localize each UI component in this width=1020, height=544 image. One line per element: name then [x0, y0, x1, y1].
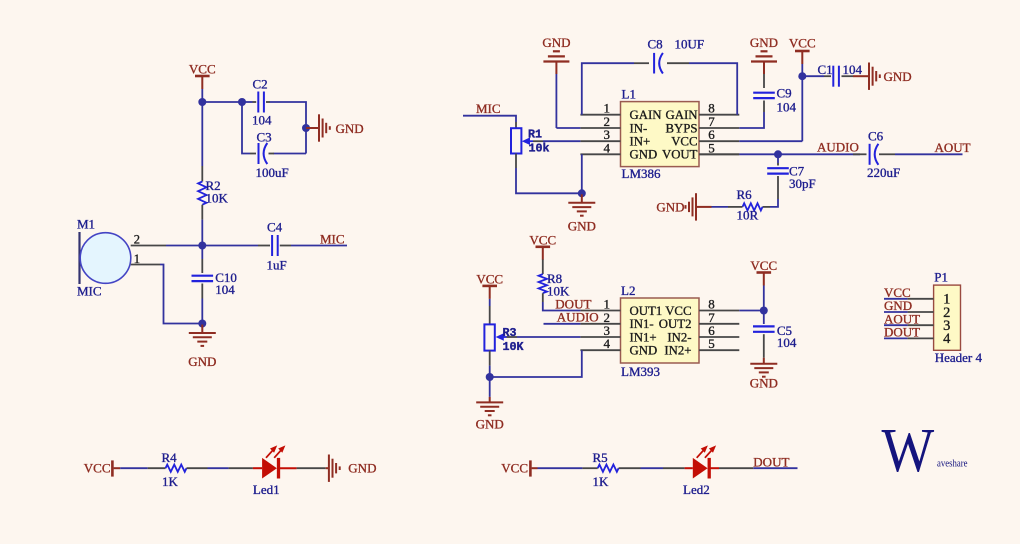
svg-text:VOUT: VOUT — [662, 148, 698, 162]
svg-text:GND: GND — [884, 69, 912, 84]
svg-text:104: 104 — [777, 335, 797, 350]
svg-text:4: 4 — [604, 336, 611, 351]
svg-text:R6: R6 — [737, 187, 753, 202]
svg-text:OUT2: OUT2 — [659, 317, 692, 331]
svg-text:104: 104 — [252, 113, 272, 128]
svg-text:GND: GND — [656, 200, 684, 215]
svg-text:10R: 10R — [737, 208, 759, 223]
svg-text:GND: GND — [630, 148, 658, 162]
svg-text:104: 104 — [843, 62, 863, 77]
svg-text:100uF: 100uF — [256, 165, 289, 180]
svg-text:LM393: LM393 — [621, 364, 660, 379]
svg-text:104: 104 — [215, 282, 235, 297]
svg-text:1K: 1K — [162, 474, 179, 489]
svg-text:L2: L2 — [621, 283, 635, 298]
svg-text:W: W — [882, 415, 935, 484]
svg-text:GND: GND — [348, 461, 376, 476]
svg-text:BYPS: BYPS — [665, 121, 697, 135]
svg-text:Header 4: Header 4 — [935, 350, 983, 365]
svg-text:C2: C2 — [253, 77, 268, 92]
svg-text:VCC: VCC — [671, 135, 697, 149]
svg-text:1uF: 1uF — [267, 258, 287, 273]
svg-text:MIC: MIC — [320, 231, 345, 246]
svg-text:M1: M1 — [77, 217, 95, 232]
svg-text:2: 2 — [134, 233, 140, 247]
svg-text:AOUT: AOUT — [935, 140, 971, 155]
svg-text:GND: GND — [750, 35, 778, 50]
svg-text:4: 4 — [943, 331, 951, 347]
svg-text:GND: GND — [542, 35, 570, 50]
svg-text:C8: C8 — [648, 36, 663, 51]
svg-text:AUDIO: AUDIO — [557, 310, 599, 325]
svg-text:VCC: VCC — [529, 233, 556, 248]
svg-text:Led1: Led1 — [253, 482, 280, 497]
svg-text:VCC: VCC — [476, 272, 503, 287]
svg-text:L1: L1 — [622, 87, 636, 102]
svg-text:GND: GND — [476, 417, 504, 432]
svg-text:220uF: 220uF — [867, 165, 900, 180]
svg-text:4: 4 — [604, 140, 611, 155]
svg-text:IN+: IN+ — [630, 135, 651, 149]
svg-text:GAIN: GAIN — [630, 108, 662, 122]
svg-text:R4: R4 — [162, 450, 178, 465]
svg-text:C4: C4 — [267, 220, 283, 235]
svg-text:C1: C1 — [818, 62, 833, 77]
svg-text:Led2: Led2 — [683, 482, 710, 497]
svg-text:5: 5 — [708, 336, 715, 351]
svg-text:VCC: VCC — [84, 461, 111, 476]
svg-text:10K: 10K — [206, 191, 229, 206]
svg-text:GAIN: GAIN — [666, 108, 698, 122]
svg-text:R1: R1 — [528, 127, 542, 141]
svg-text:GND: GND — [336, 121, 364, 136]
svg-text:LM386: LM386 — [622, 166, 662, 181]
svg-text:GND: GND — [750, 376, 778, 391]
svg-text:DOUT: DOUT — [753, 454, 789, 469]
svg-text:aveshare: aveshare — [937, 459, 968, 470]
svg-text:30pF: 30pF — [789, 176, 816, 191]
svg-text:104: 104 — [777, 100, 797, 115]
svg-text:R5: R5 — [593, 450, 608, 465]
svg-text:GND: GND — [188, 354, 216, 369]
svg-text:C3: C3 — [257, 130, 272, 145]
svg-text:C6: C6 — [868, 128, 884, 143]
svg-text:10K: 10K — [503, 340, 525, 354]
svg-text:P1: P1 — [934, 269, 948, 284]
svg-text:VCC: VCC — [501, 461, 528, 476]
svg-text:VCC: VCC — [189, 62, 216, 77]
svg-text:DOUT: DOUT — [884, 325, 920, 340]
svg-text:IN1+: IN1+ — [630, 330, 657, 344]
svg-text:MIC: MIC — [476, 101, 501, 116]
svg-text:VCC: VCC — [665, 304, 691, 318]
svg-text:GND: GND — [568, 219, 596, 234]
svg-text:AUDIO: AUDIO — [817, 139, 859, 154]
svg-text:5: 5 — [708, 140, 715, 155]
svg-text:VCC: VCC — [789, 36, 816, 51]
svg-text:1K: 1K — [593, 474, 610, 489]
svg-text:IN2-: IN2- — [667, 330, 691, 344]
svg-text:GND: GND — [630, 344, 658, 358]
svg-text:IN1-: IN1- — [630, 317, 654, 331]
svg-text:10UF: 10UF — [675, 36, 705, 51]
svg-text:C9: C9 — [777, 86, 792, 101]
svg-text:10k: 10k — [529, 142, 550, 156]
svg-text:R3: R3 — [503, 326, 517, 340]
svg-text:MIC: MIC — [77, 284, 102, 299]
svg-text:OUT1: OUT1 — [630, 304, 663, 318]
svg-text:IN2+: IN2+ — [664, 344, 691, 358]
svg-text:IN-: IN- — [630, 121, 648, 135]
svg-text:VCC: VCC — [750, 258, 777, 273]
